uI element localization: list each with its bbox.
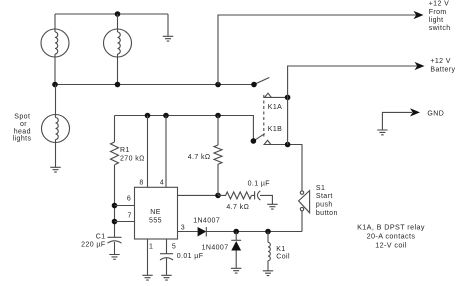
- svg-text:4.7 kΩ: 4.7 kΩ: [188, 154, 211, 161]
- ground (lamp L3): [50, 167, 60, 172]
- node K1A out: [285, 95, 291, 101]
- svg-text:+12 V: +12 V: [429, 1, 450, 8]
- wire S1 top lead: [288, 145, 302, 191]
- capacitor 0.1uF: [252, 191, 273, 204]
- node pin4 riser: [163, 113, 169, 119]
- arrowhead GND: [410, 108, 420, 116]
- svg-text:220 µF: 220 µF: [81, 242, 105, 249]
- svg-text:button: button: [316, 210, 338, 217]
- svg-text:+12 V: +12 V: [430, 58, 451, 65]
- svg-text:S1: S1: [316, 185, 325, 192]
- svg-text:C1: C1: [96, 234, 106, 241]
- wire middle bus to K1B: [115, 116, 254, 142]
- capacitor C1 220uF: [108, 237, 122, 254]
- relay contact K1A: [254, 78, 288, 98]
- svg-text:3: 3: [181, 225, 185, 232]
- svg-text:From: From: [429, 9, 447, 16]
- node pin6 junction: [112, 203, 118, 209]
- resistor 4.7k vertical: [214, 145, 222, 164]
- wire pin1 to ground: [147, 239, 149, 275]
- node pin7 junction: [112, 219, 118, 225]
- node pin8 riser: [145, 113, 151, 119]
- ground chassis (lamps top): [163, 14, 173, 41]
- lamp L3 (spot/head): [42, 85, 70, 168]
- svg-text:555: 555: [149, 218, 162, 225]
- svg-text:light: light: [429, 17, 444, 24]
- wire lamps top bus: [55, 13, 168, 15]
- node lamp2 top junction: [115, 11, 121, 17]
- svg-text:K1: K1: [276, 246, 285, 253]
- label Spot or head lights: [13, 113, 32, 142]
- node coil junction: [265, 229, 271, 235]
- wire 4.7k riser top lead: [217, 116, 219, 146]
- svg-text:Coil: Coil: [276, 254, 290, 261]
- node D2 junction: [233, 229, 239, 235]
- svg-text:12-V coil: 12-V coil: [375, 241, 407, 250]
- svg-text:5: 5: [172, 244, 176, 251]
- wire +12V battery feed: [288, 66, 417, 145]
- svg-text:1: 1: [149, 244, 153, 251]
- svg-text:GND: GND: [427, 110, 444, 117]
- node K1B pivot: [251, 138, 257, 144]
- ground (C1): [109, 255, 119, 260]
- svg-text:7: 7: [128, 213, 132, 220]
- label +12V Battery: [430, 58, 455, 74]
- wire pin7: [115, 221, 135, 223]
- svg-text:270 kΩ: 270 kΩ: [120, 156, 145, 163]
- svg-text:8: 8: [139, 180, 143, 187]
- wire lamps bottom bus: [55, 84, 254, 86]
- ground (D2): [231, 268, 241, 273]
- ground (GND symbol): [377, 130, 387, 135]
- svg-text:0.01 µF: 0.01 µF: [177, 253, 204, 260]
- svg-text:1N4007: 1N4007: [202, 245, 229, 252]
- svg-text:4: 4: [160, 180, 164, 187]
- svg-text:switch: switch: [429, 25, 451, 32]
- wire pin3 bus: [206, 231, 302, 233]
- node trigger junction: [215, 193, 221, 199]
- label R1 / 270 kohm: [120, 147, 145, 163]
- capacitor 0.01uF: [160, 254, 173, 275]
- wire pin5 lead: [166, 239, 168, 254]
- svg-text:Start: Start: [316, 193, 333, 200]
- relay contact K1B: [253, 134, 287, 145]
- resistor 4.7k horizontal: [218, 192, 252, 199]
- switch S1 push button: [299, 191, 310, 213]
- svg-text:Spot: Spot: [14, 113, 30, 120]
- wire pin3: [178, 231, 198, 233]
- node L2 bottom: [115, 82, 121, 88]
- wire pin6: [115, 205, 135, 207]
- wire +12V from light switch: [218, 15, 416, 85]
- svg-text:push: push: [316, 202, 333, 209]
- dashed mechanical link K1: [263, 95, 265, 138]
- diode D2 1N4007: [231, 232, 241, 269]
- svg-text:Battery: Battery: [430, 67, 455, 74]
- label +12V From light switch: [429, 1, 451, 33]
- relay coil K1: [268, 232, 270, 271]
- label K1 Coil: [276, 246, 290, 261]
- node K1A pivot: [251, 82, 257, 88]
- wire pin8 riser: [147, 116, 149, 188]
- svg-text:1N4007: 1N4007: [193, 218, 220, 225]
- svg-text:4.7 kΩ: 4.7 kΩ: [226, 204, 249, 211]
- wire GND stub: [382, 112, 412, 129]
- note K1A,B DPST relay: [357, 222, 425, 249]
- lamp L2 (spot/head): [104, 14, 132, 85]
- svg-text:lights: lights: [13, 135, 32, 142]
- svg-text:K1B: K1B: [268, 126, 282, 133]
- diode D1 1N4007: [198, 227, 207, 237]
- wire 4.7k bottom lead: [217, 164, 219, 195]
- ground (0.1uF): [267, 204, 277, 209]
- svg-text:20-A contacts: 20-A contacts: [367, 232, 416, 241]
- svg-text:0.1 µF: 0.1 µF: [248, 180, 270, 187]
- wire S1 bottom lead: [301, 211, 303, 232]
- wire trigger pin2: [178, 194, 219, 196]
- node K1B out: [285, 142, 291, 148]
- ground (0.01uF): [161, 275, 171, 280]
- resistor R1 270k: [111, 142, 119, 165]
- IC U1 NE555: [135, 187, 178, 239]
- svg-text:R1: R1: [120, 147, 130, 154]
- ground (K1 coil): [263, 271, 273, 276]
- wire pin4 riser: [165, 116, 167, 188]
- svg-text:K1A: K1A: [268, 104, 282, 111]
- svg-text:K1A, B DPST relay: K1A, B DPST relay: [357, 222, 425, 231]
- label C1 / 220 uF: [81, 234, 105, 249]
- wire R1 bottom to C1: [114, 165, 116, 237]
- label S1 Start push button: [316, 185, 338, 217]
- svg-text:6: 6: [127, 196, 131, 203]
- node +12V feed junction: [215, 82, 221, 88]
- svg-text:or: or: [20, 121, 27, 128]
- svg-text:NE: NE: [150, 209, 161, 216]
- lamp L1 (spot/head): [41, 14, 69, 85]
- node L1 bottom: [52, 82, 58, 88]
- ground (pin1): [142, 275, 152, 280]
- node 4.7k riser: [215, 113, 221, 119]
- arrowhead light switch: [414, 11, 424, 19]
- wire R1 top lead: [114, 116, 116, 143]
- arrowhead battery: [415, 62, 425, 70]
